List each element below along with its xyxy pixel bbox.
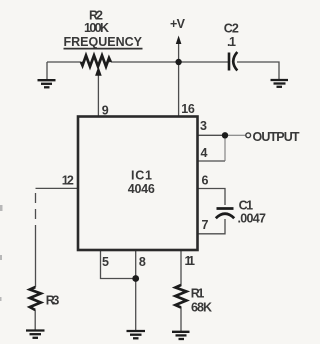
svg-text:C2: C2 (224, 22, 239, 36)
svg-text:4046: 4046 (128, 182, 155, 196)
svg-text:+V: +V (170, 17, 186, 31)
svg-text:8: 8 (139, 255, 146, 269)
svg-text:FREQUENCY: FREQUENCY (64, 35, 143, 49)
svg-text:IC1: IC1 (131, 169, 152, 183)
svg-text:68K: 68K (191, 301, 212, 315)
svg-text:11: 11 (185, 254, 196, 268)
svg-text:C1: C1 (239, 199, 254, 213)
svg-text:.0047: .0047 (238, 212, 267, 226)
svg-text:OUTPUT: OUTPUT (253, 130, 300, 144)
svg-text:16: 16 (181, 102, 195, 116)
svg-text:12: 12 (62, 173, 74, 187)
svg-text:R3: R3 (46, 294, 60, 308)
svg-text:R1: R1 (191, 287, 205, 301)
svg-text:6: 6 (202, 174, 209, 188)
svg-text:3: 3 (200, 119, 207, 133)
svg-text:100K: 100K (84, 21, 109, 35)
svg-text:5: 5 (102, 255, 109, 269)
svg-text:.1: .1 (227, 35, 236, 49)
svg-text:4: 4 (201, 146, 208, 160)
svg-text:9: 9 (102, 104, 109, 118)
svg-text:7: 7 (202, 218, 209, 232)
